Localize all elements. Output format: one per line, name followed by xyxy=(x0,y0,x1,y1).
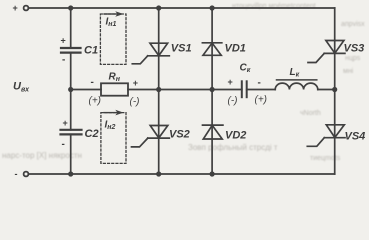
svg-text:VS2: VS2 xyxy=(169,129,190,141)
svg-text:-: - xyxy=(62,139,65,150)
wire left column bottom xyxy=(70,134,72,174)
faint page bleed-through text top right xyxy=(232,3,365,75)
capacitor Ck xyxy=(242,81,247,97)
wire top rail xyxy=(29,7,335,9)
resistor Rn xyxy=(101,83,128,95)
svg-text:VD2: VD2 xyxy=(225,130,246,142)
inductor Lk xyxy=(275,80,318,90)
diode VD2 xyxy=(203,125,223,139)
svg-text:нтоцеvillрп мnémetcontent: нтоцеvillрп мnémetcontent xyxy=(232,3,316,10)
wire VS column xyxy=(158,8,160,174)
wire VD column xyxy=(211,8,213,174)
capacitor C1 xyxy=(61,48,81,53)
svg-text:чNorth: чNorth xyxy=(300,110,321,117)
thyristor VS3 xyxy=(308,41,345,63)
thyristor VS1 xyxy=(132,43,169,64)
svg-text:Зовп рофльный стрсді т: Зовп рофльный стрсді т xyxy=(188,143,278,152)
svg-text:C1: C1 xyxy=(84,45,98,57)
current arrow In2 xyxy=(104,110,124,116)
node junction bottom C2 xyxy=(68,171,73,176)
wire middle rail right end xyxy=(318,89,335,91)
wire middle rail right of Ck xyxy=(247,89,276,91)
svg-text:-: - xyxy=(15,169,18,179)
svg-text:мні: мні xyxy=(343,67,354,75)
svg-text:(-): (-) xyxy=(228,96,238,107)
svg-text:+: + xyxy=(61,36,66,46)
svg-text:нцps: нцps xyxy=(345,55,361,62)
node junction top VS1 xyxy=(156,5,161,10)
svg-text:VS4: VS4 xyxy=(345,131,366,143)
capacitor C2 xyxy=(61,130,82,135)
node junction mid VS xyxy=(156,87,161,92)
node junction mid right xyxy=(332,87,337,92)
node junction top C1 xyxy=(68,5,73,10)
svg-text:VD1: VD1 xyxy=(225,43,246,55)
node minus input terminal xyxy=(24,172,29,177)
node junction top VD1 xyxy=(210,5,215,10)
wire left column lower xyxy=(70,90,72,130)
thyristor VS4 xyxy=(307,125,345,147)
diode VD1 xyxy=(202,43,221,56)
svg-text:C2: C2 xyxy=(85,128,99,140)
dashed loop In2 xyxy=(101,113,126,164)
current arrow In1 xyxy=(104,11,124,17)
wire left column upper xyxy=(70,8,72,48)
node junction mid left xyxy=(68,87,73,92)
wire right column xyxy=(334,8,336,174)
dashed loop In1 xyxy=(100,14,126,64)
svg-text:+: + xyxy=(13,3,18,13)
svg-text:(-): (-) xyxy=(130,97,140,108)
wire middle rail left xyxy=(71,89,101,91)
faint page bleed-through text bottom xyxy=(2,110,341,162)
svg-text:+: + xyxy=(228,77,233,87)
thyristor VS2 xyxy=(132,126,170,147)
svg-text:VS1: VS1 xyxy=(171,43,192,55)
svg-text:(+): (+) xyxy=(255,95,268,106)
svg-text:VS3: VS3 xyxy=(344,43,365,55)
svg-text:-: - xyxy=(258,78,261,89)
wire bottom rail xyxy=(29,173,335,175)
svg-text:+: + xyxy=(133,78,138,88)
node junction bottom VS2 xyxy=(156,171,161,176)
svg-text:-: - xyxy=(91,77,94,88)
wire middle rail center xyxy=(128,89,242,91)
wire left column mid xyxy=(70,53,72,90)
svg-text:апрvisx: апрvisx xyxy=(341,21,365,28)
node junction bottom VD2 xyxy=(210,171,215,176)
svg-text:тиецmots: тиецmots xyxy=(310,155,341,162)
svg-text:+: + xyxy=(63,118,68,128)
node junction mid VD xyxy=(210,87,215,92)
node plus input terminal xyxy=(24,6,29,11)
svg-text:(+): (+) xyxy=(89,96,102,107)
svg-text:-: - xyxy=(62,55,65,66)
